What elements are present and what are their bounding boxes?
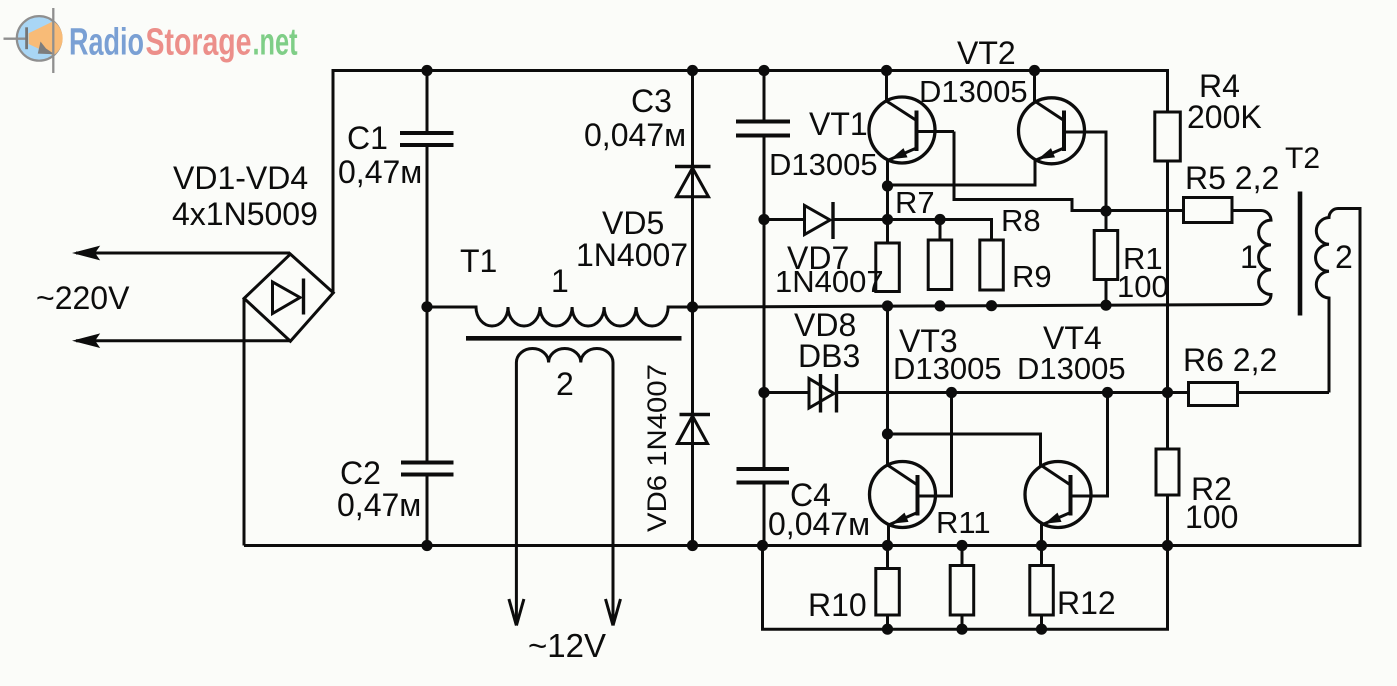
svg-text:D13005: D13005: [893, 351, 1002, 386]
svg-text:1: 1: [551, 263, 569, 299]
svg-text:VT1: VT1: [809, 106, 868, 142]
svg-text:C3: C3: [631, 83, 672, 119]
svg-text:D13005: D13005: [769, 147, 878, 182]
svg-text:2: 2: [1335, 239, 1353, 275]
svg-text:VT2: VT2: [957, 35, 1016, 71]
svg-text:D13005: D13005: [919, 74, 1028, 109]
svg-text:R8: R8: [1001, 203, 1041, 238]
svg-text:100: 100: [1185, 499, 1238, 535]
svg-text:1: 1: [1240, 239, 1258, 275]
svg-text:Storage: Storage: [146, 22, 252, 64]
svg-text:DB3: DB3: [798, 338, 860, 374]
svg-text:C1: C1: [347, 120, 388, 156]
svg-text:R6 2,2: R6 2,2: [1183, 342, 1277, 378]
svg-text:R11: R11: [936, 505, 991, 540]
svg-text:R7: R7: [895, 185, 935, 220]
svg-text:0,47м: 0,47м: [337, 487, 421, 523]
svg-text:R5 2,2: R5 2,2: [1185, 160, 1279, 196]
svg-text:D13005: D13005: [1017, 351, 1126, 386]
svg-text:100: 100: [1117, 269, 1169, 304]
svg-text:VD6 1N4007: VD6 1N4007: [642, 364, 672, 532]
svg-text:VD1-VD4: VD1-VD4: [173, 160, 308, 196]
svg-text:VD5: VD5: [602, 205, 664, 241]
svg-text:T2: T2: [1285, 142, 1320, 175]
svg-text:Radio: Radio: [69, 22, 144, 64]
svg-text:R10: R10: [808, 587, 867, 623]
svg-text:1N4007: 1N4007: [775, 264, 884, 299]
svg-text:4x1N5009: 4x1N5009: [172, 196, 318, 232]
svg-text:.net: .net: [253, 22, 298, 64]
svg-text:R12: R12: [1057, 585, 1116, 621]
svg-text:T1: T1: [460, 243, 497, 279]
svg-text:1N4007: 1N4007: [576, 237, 688, 273]
svg-text:~220V: ~220V: [36, 280, 130, 316]
svg-text:2: 2: [556, 366, 574, 402]
svg-text:C2: C2: [340, 455, 381, 491]
svg-text:0,047м: 0,047м: [768, 506, 870, 542]
svg-text:0,047м: 0,047м: [584, 117, 686, 153]
svg-text:R9: R9: [1012, 259, 1052, 294]
svg-text:200K: 200K: [1187, 99, 1262, 135]
svg-text:0,47м: 0,47м: [338, 154, 422, 190]
svg-text:~12V: ~12V: [528, 627, 606, 664]
